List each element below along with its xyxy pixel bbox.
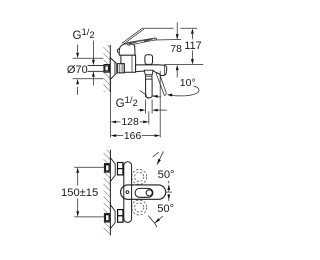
tube bottom curves [146,96,153,98]
escutcheon cone [110,58,116,80]
G1/2 arrows [138,109,142,111]
dimension 117 [191,28,194,34]
outlet tube [145,79,147,97]
body bar (plan) [124,162,132,223]
dome left bump [117,49,119,54]
G1/2 top leader arrow [92,41,94,61]
spout reference line [164,64,203,66]
ext line from spout tip [159,71,161,138]
lever thin loop edge [122,28,143,43]
body screw dot [126,191,129,194]
outlet collar [144,70,153,75]
svg-text:166: 166 [124,131,142,142]
lever bar (dark tapered) [127,38,157,45]
extension line A (lever top) [143,27,174,29]
wall hatch (plan) [104,150,111,234]
svg-text:50°: 50° [157,203,174,215]
svg-text:10°: 10° [180,77,196,89]
union squares on wall (plan) [104,164,110,173]
dimension 150+-15 [76,167,79,173]
svg-text:78: 78 [170,44,182,55]
G1/2 ext lines from tube [145,100,147,114]
dimension 78 [176,22,178,34]
50deg bottom ray [155,216,163,223]
wall face line [109,45,111,92]
10-degree leader swoosh [170,86,199,96]
spout arm and tip [136,65,167,76]
phantom tilted outlet [156,72,165,95]
wall hatch (side view) [104,45,111,92]
extension line B (lever end) [154,39,181,42]
dashed swing circles [132,169,147,184]
diverter knob [145,55,153,65]
svg-text:150±15: 150±15 [61,187,98,199]
svg-text:128: 128 [121,117,139,128]
small angle arc with arrow [140,91,147,96]
ext line from outlet center [148,112,150,125]
svg-text:50°: 50° [158,169,175,181]
body block [121,55,136,72]
union nut [118,64,125,73]
svg-text:117: 117 [184,40,201,52]
cartridge dome [119,43,135,55]
handle (plan) [121,185,166,199]
svg-text:Ø70: Ø70 [67,64,88,76]
50deg dashed arc line [168,181,170,202]
handle centerline extension [166,191,172,193]
supply pipe stub [88,64,104,66]
supply pipes / extension lines [74,166,104,168]
50deg top ray [157,151,163,164]
dimension diameter 70 [73,57,104,59]
dimension 128 [111,121,117,124]
union nuts (plan) [118,163,123,169]
dimension 166 [111,134,117,137]
escutcheon cones (plan) [110,158,115,182]
handle slot [135,188,153,197]
union end cap square on wall [104,65,110,73]
left extension line (wall face) [110,81,112,138]
wall face line (plan) [109,150,111,236]
